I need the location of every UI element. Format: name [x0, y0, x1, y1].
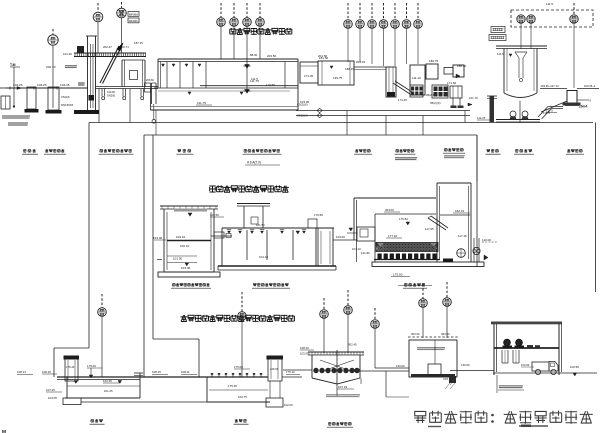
svg-text:A 6 A(7.0): A 6 A(7.0): [247, 161, 261, 165]
svg-text:108.15: 108.15: [152, 370, 161, 374]
svg-text:MF96A: MF96A: [129, 12, 138, 16]
svg-text:112.25: 112.25: [477, 116, 486, 120]
svg-text:302.45: 302.45: [348, 343, 357, 347]
svg-text:177.10: 177.10: [388, 234, 398, 238]
svg-text:102.25: 102.25: [103, 379, 112, 383]
svg-text:120.00: 120.00: [107, 90, 115, 94]
svg-text:180.75: 180.75: [429, 59, 439, 63]
svg-text:102.00: 102.00: [284, 403, 293, 407]
svg-text:175.10: 175.10: [286, 370, 295, 374]
svg-text:108.14: 108.14: [17, 370, 26, 374]
svg-text:121.80: 121.80: [361, 251, 370, 255]
svg-text:204.15: 204.15: [356, 60, 366, 64]
svg-text:101.10: 101.10: [259, 255, 269, 259]
svg-text:103.10: 103.10: [176, 235, 186, 239]
svg-text:188.15: 188.15: [345, 67, 355, 71]
svg-text:C5(2)(X): C5(2)(X): [297, 103, 308, 107]
svg-text:188.10: 188.10: [457, 64, 467, 68]
svg-text:100.10: 100.10: [180, 244, 190, 248]
svg-text:182.15: 182.15: [455, 209, 465, 213]
svg-text:108.11: 108.11: [181, 370, 190, 374]
svg-text:104.25: 104.25: [13, 83, 23, 87]
svg-text:187.15: 187.15: [134, 41, 143, 45]
svg-text:181.50: 181.50: [319, 56, 329, 60]
svg-text:107.23: 107.23: [338, 385, 348, 389]
svg-text:XXX: XXX: [443, 377, 448, 381]
svg-text:101.20: 101.20: [63, 52, 72, 56]
svg-text:110.00: 110.00: [482, 238, 491, 242]
svg-text:111.5: 111.5: [546, 2, 553, 6]
svg-text:104.45: 104.45: [60, 83, 70, 87]
svg-text:103.00: 103.00: [336, 235, 345, 239]
svg-text:363.00: 363.00: [411, 332, 420, 336]
svg-text:175.00: 175.00: [87, 364, 96, 368]
svg-text:175.50: 175.50: [393, 273, 403, 277]
svg-text:130.00: 130.00: [461, 363, 470, 367]
svg-text:DN200: DN200: [107, 94, 116, 98]
svg-text:103.00: 103.00: [521, 363, 530, 367]
svg-text:T.M: T.M: [10, 63, 16, 67]
svg-text:103.35~107.10: 103.35~107.10: [541, 84, 560, 88]
svg-text:103.40: 103.40: [181, 266, 191, 270]
svg-text:117.95: 117.95: [425, 227, 434, 231]
svg-text:103.35~1: 103.35~1: [584, 84, 596, 88]
svg-text:202.70: 202.70: [46, 65, 56, 69]
svg-text:363.00: 363.00: [441, 332, 450, 336]
svg-text:05(2)3: 05(2)3: [426, 93, 435, 97]
svg-text:111.5: 111.5: [497, 52, 504, 56]
svg-text:05(2)(X): 05(2)(X): [430, 101, 441, 105]
svg-text:171.45: 171.45: [304, 74, 314, 78]
svg-text:108.10: 108.10: [300, 346, 309, 350]
svg-text:103.05: 103.05: [48, 396, 57, 400]
svg-text:171.50: 171.50: [447, 81, 457, 85]
svg-text:175.60: 175.60: [399, 217, 408, 221]
svg-text:104.25: 104.25: [37, 83, 47, 87]
svg-text:DN150X6: DN150X6: [61, 103, 74, 107]
svg-text:107.25: 107.25: [46, 388, 55, 392]
svg-text:102.75: 102.75: [238, 395, 247, 399]
svg-text:111.75: 111.75: [197, 101, 206, 105]
svg-text:176.40: 176.40: [66, 365, 75, 369]
svg-text:C5(2)(X): C5(2)(X): [297, 114, 308, 118]
svg-text:303.00: 303.00: [385, 208, 394, 212]
svg-text:111.10: 111.10: [412, 76, 421, 80]
svg-text:100.50: 100.50: [570, 365, 579, 369]
svg-text:179.50: 179.50: [314, 213, 323, 217]
svg-text:M: M: [2, 429, 6, 433]
svg-text:111.5: 111.5: [251, 77, 258, 81]
svg-text:101.25: 101.25: [104, 389, 113, 393]
svg-text:126.60: 126.60: [270, 367, 279, 371]
svg-text:202.47: 202.47: [103, 45, 112, 49]
svg-text:108.16: 108.16: [42, 370, 51, 374]
svg-text:130.00: 130.00: [396, 364, 405, 368]
svg-text:175.45: 175.45: [228, 384, 237, 388]
svg-text:111.5: 111.5: [543, 111, 550, 115]
svg-text:175.00: 175.00: [234, 365, 243, 369]
svg-text:C5(2)6: C5(2)6: [61, 95, 70, 99]
svg-text:MF96C: MF96C: [129, 19, 138, 23]
svg-text:139.75: 139.75: [333, 76, 343, 80]
svg-text:174.25: 174.25: [398, 98, 407, 102]
svg-text:117.45: 117.45: [458, 234, 467, 238]
svg-text:181.50: 181.50: [256, 223, 265, 227]
svg-text:203.60: 203.60: [146, 78, 154, 82]
svg-text:110.50: 110.50: [266, 83, 275, 87]
svg-text:103.00: 103.00: [153, 236, 163, 240]
svg-text:101.50: 101.50: [173, 257, 183, 261]
svg-text:121.70: 121.70: [469, 96, 478, 100]
svg-text:103.00: 103.00: [300, 352, 309, 356]
svg-text:103.50: 103.50: [210, 213, 219, 217]
svg-text:88.30: 88.30: [250, 53, 258, 57]
svg-text:203.50: 203.50: [267, 54, 277, 58]
